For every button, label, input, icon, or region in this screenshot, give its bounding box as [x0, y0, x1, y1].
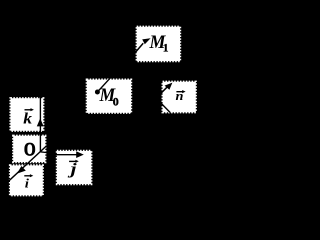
wire: normal vector n line: [161, 86, 168, 93]
label O text: [24, 139, 36, 160]
label j text: [67, 160, 77, 178]
svg-text:i: i: [25, 176, 29, 190]
label i text: [25, 176, 29, 190]
label box O: [13, 136, 45, 162]
label M1 text: [149, 32, 167, 52]
svg-text:0: 0: [113, 94, 119, 108]
wire: plane edge crossing n box corner: [161, 103, 171, 113]
i vector bar: [24, 175, 31, 177]
label box M0: [87, 80, 131, 113]
point M0 dot: [95, 90, 100, 95]
arrowhead of n: [165, 83, 173, 90]
label box n: [163, 82, 196, 113]
svg-text:k: k: [23, 109, 32, 127]
label k text: [23, 109, 32, 127]
wire: y axis line in j box: [56, 154, 79, 156]
label M0 text: [99, 84, 116, 105]
arrowhead at M1: [142, 38, 150, 44]
label box j: [57, 151, 91, 184]
label box i: [10, 165, 43, 195]
label box k: [11, 98, 44, 131]
svg-text:1: 1: [163, 42, 169, 54]
wire: z axis vertical line: [39, 96, 41, 152]
svg-text:O: O: [24, 139, 36, 160]
label box M1: [137, 27, 180, 61]
arrowhead of k vector: [37, 118, 44, 126]
j vector bar: [69, 160, 77, 162]
arrowhead of j vector: [76, 151, 84, 158]
wire: x axis diagonal line: [9, 146, 47, 181]
label n text: [176, 89, 184, 103]
k vector bar: [25, 109, 33, 111]
n vector bar: [176, 91, 184, 93]
wire: line from M0 dot: [97, 78, 110, 92]
wire: y axis stub at O: [40, 151, 47, 154]
arrowhead of i vector: [17, 166, 26, 174]
wire: line into M1 box: [134, 43, 143, 53]
